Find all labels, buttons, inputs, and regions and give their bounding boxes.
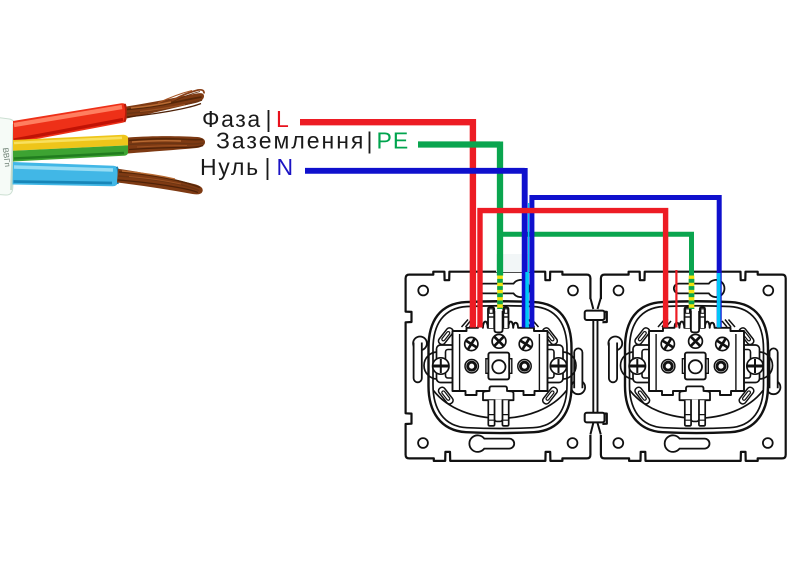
cable photo: neutral wire insulation (light blue) [13, 162, 119, 186]
shading above socket 1 terminals [496, 254, 533, 272]
wire L jumper (red) [480, 211, 666, 328]
inter-plate cross tab upper [585, 311, 605, 320]
inter-plate neck diverge bottom [590, 423, 600, 435]
label: Заземлення | PE [216, 128, 409, 154]
wire N feed (blue) [305, 168, 525, 328]
socket 2 plate [601, 272, 786, 461]
cable photo: phase wire copper strands [127, 90, 205, 119]
PE dashed yellow-green end socket 1 [497, 276, 503, 310]
svg-text:N: N [277, 154, 294, 180]
wire L feed (red) [300, 119, 473, 328]
inter-plate neck erase [589, 299, 603, 435]
cable photo: neutral wire copper strands [117, 169, 203, 195]
thin red remnant at socket 2 [675, 270, 677, 328]
wire N jumper (blue) [532, 198, 719, 328]
inter-plate cross tab lower [585, 413, 605, 423]
cyan stripe socket 1 [528, 203, 530, 272]
svg-text:Заземлення: Заземлення [216, 128, 365, 154]
socket 2 mechanism [621, 301, 773, 433]
cable photo: earth wire copper strands [128, 136, 205, 153]
inter-plate neck converge top [590, 298, 600, 309]
label: Фаза | L [202, 106, 289, 132]
svg-text:|: | [265, 154, 271, 180]
cyan stripe socket 2 [717, 273, 721, 328]
socket 1 mechanism [424, 301, 576, 433]
svg-text:Нуль: Нуль [200, 154, 260, 180]
cable photo: earth wire insulation (yellow-green) [13, 135, 128, 162]
cable photo: phase wire insulation (red) [13, 103, 127, 143]
PE dashed yellow-green end socket 2 [689, 276, 695, 310]
wire PE feed (green) [418, 142, 500, 276]
wire PE jumper (green) [497, 234, 692, 275]
svg-text:PE: PE [377, 128, 410, 154]
inter-plate neck stem [593, 311, 597, 422]
svg-text:|: | [367, 128, 373, 154]
label: Нуль | N [200, 154, 293, 180]
cable photo: outer sheath [0, 118, 15, 196]
socket 1 plate [406, 272, 591, 461]
